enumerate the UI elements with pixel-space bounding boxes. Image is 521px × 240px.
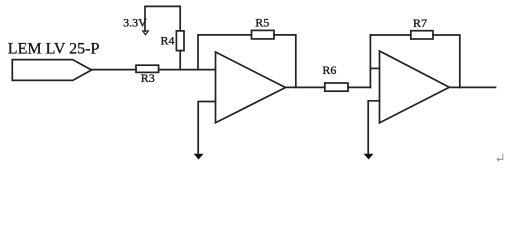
svg-text:3.3V: 3.3V [123,16,147,30]
svg-text:R6: R6 [322,63,336,77]
svg-text:R4: R4 [160,34,174,48]
svg-text:R3: R3 [141,71,155,85]
svg-text:LEM LV 25-P: LEM LV 25-P [8,41,100,58]
svg-text:R5: R5 [255,16,269,30]
svg-text:R7: R7 [413,16,427,30]
